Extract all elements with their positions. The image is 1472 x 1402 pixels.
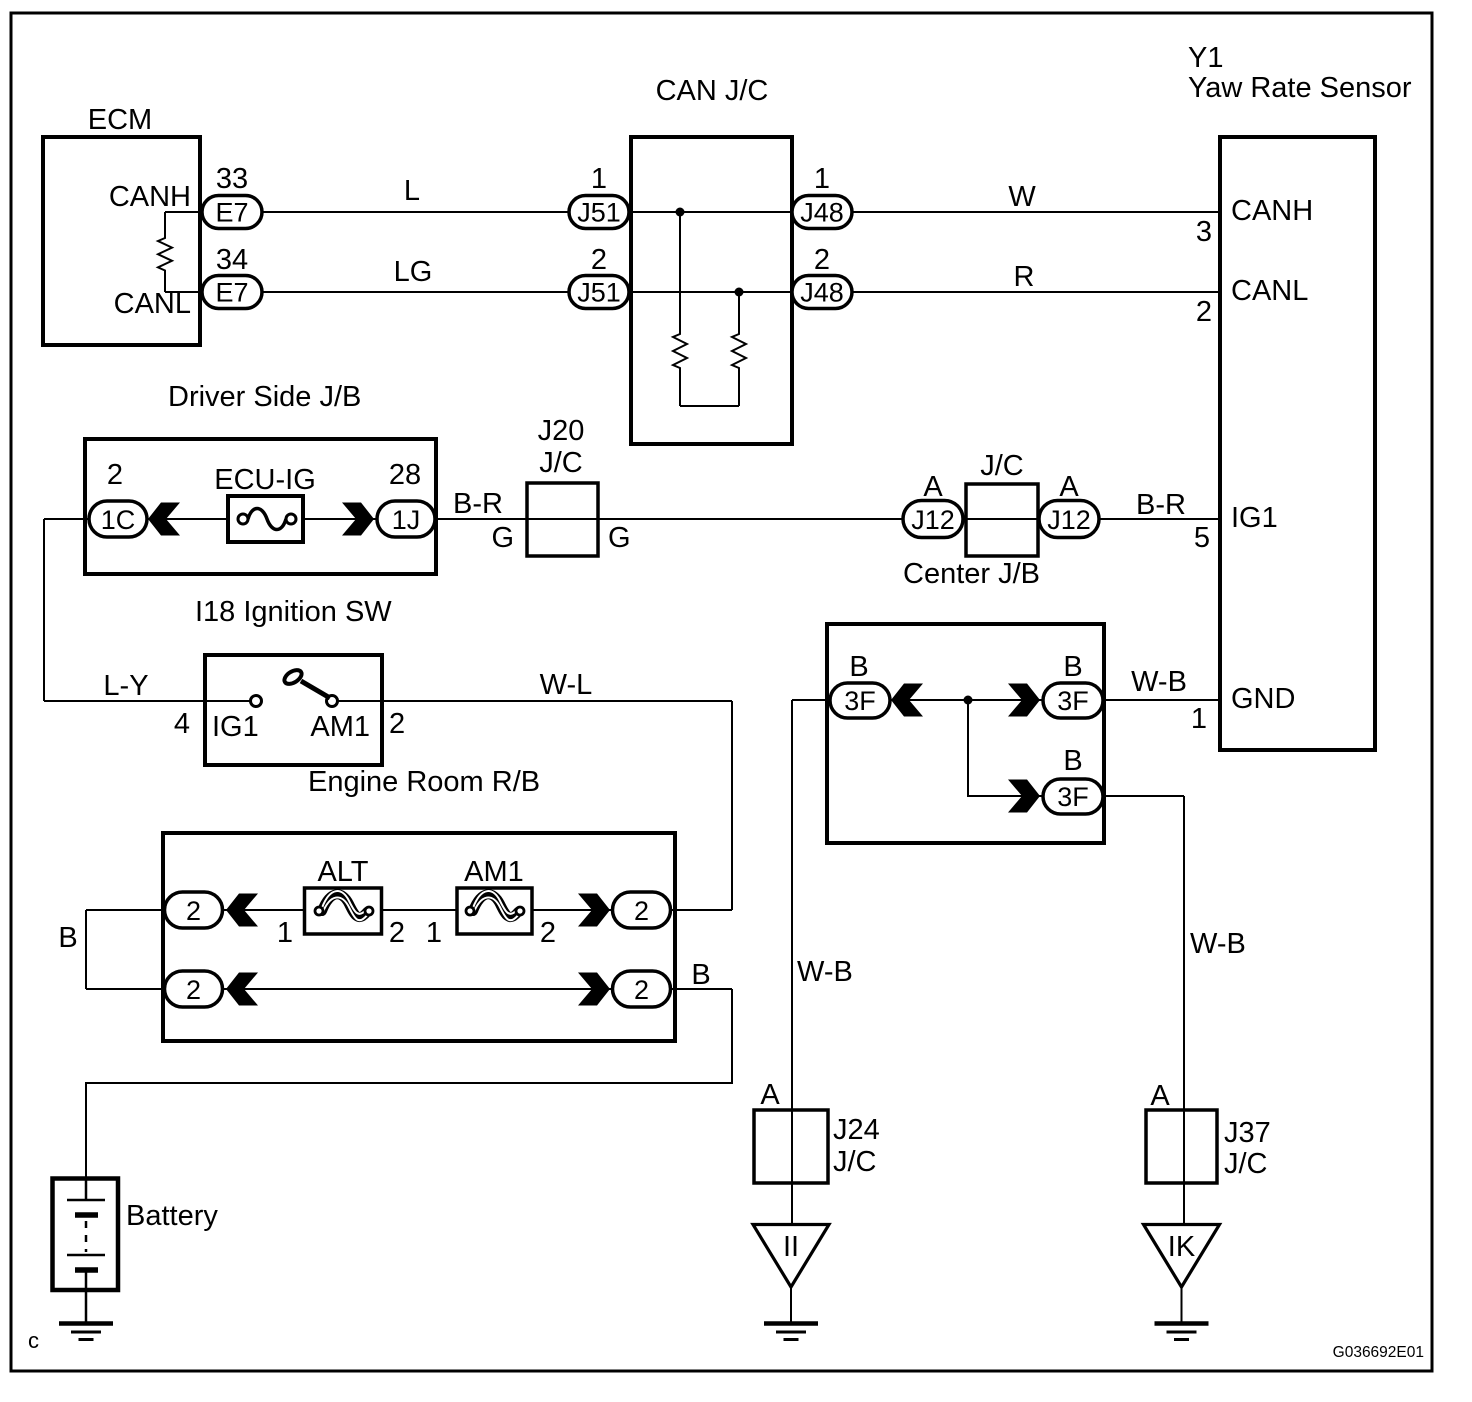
svg-text:R: R [1014, 261, 1035, 293]
svg-text:J/C: J/C [1224, 1148, 1268, 1180]
svg-text:B: B [691, 959, 710, 991]
svg-text:5: 5 [1194, 522, 1210, 554]
svg-text:3: 3 [1196, 216, 1212, 248]
Driver Side J/B box [85, 439, 436, 574]
wire from row2 down to battery feed [86, 989, 732, 1179]
svg-text:AM1: AM1 [464, 856, 524, 888]
svg-text:2: 2 [540, 917, 556, 949]
ECM box [43, 137, 200, 345]
svg-text:I18 Ignition SW: I18 Ignition SW [195, 596, 392, 628]
svg-text:W-B: W-B [797, 956, 853, 988]
ground triangle II [753, 1225, 829, 1288]
fusible link AM1 [457, 888, 532, 934]
svg-text:IG1: IG1 [1231, 502, 1278, 534]
svg-text:1: 1 [426, 917, 442, 949]
svg-text:B: B [58, 922, 77, 954]
connector 3F row2 [1043, 779, 1103, 814]
svg-text:Y1: Y1 [1188, 42, 1223, 74]
wire CANH row ECM to Yaw [165, 211, 1220, 213]
svg-text:W-L: W-L [540, 669, 593, 701]
svg-text:J48: J48 [800, 198, 844, 228]
svg-text:IK: IK [1168, 1231, 1196, 1263]
svg-text:2: 2 [389, 917, 405, 949]
svg-text:Battery: Battery [126, 1200, 218, 1232]
svg-text:33: 33 [216, 163, 248, 195]
arrow left at 1C [148, 503, 180, 536]
node dot (3F box) [964, 696, 973, 705]
switch lever [282, 667, 330, 698]
svg-text:1: 1 [814, 163, 830, 195]
ground (J24) [764, 1324, 818, 1340]
svg-text:2: 2 [634, 896, 649, 926]
svg-text:2: 2 [186, 896, 201, 926]
svg-text:GND: GND [1231, 683, 1295, 715]
svg-text:CANL: CANL [1231, 275, 1308, 307]
connector 2 row2 left [165, 971, 223, 1007]
svg-text:J24: J24 [833, 1114, 880, 1146]
svg-text:J/C: J/C [539, 447, 583, 479]
connector J48 pin 1 [792, 196, 852, 229]
arrow right row2 [578, 973, 610, 1006]
connector J48 pin 2 [792, 276, 852, 309]
svg-text:L: L [404, 175, 420, 207]
ground (battery) [59, 1324, 113, 1340]
svg-text:W-B: W-B [1190, 928, 1246, 960]
connector J51 pin 2 [569, 276, 629, 309]
svg-text:4: 4 [174, 708, 190, 740]
svg-text:J/C: J/C [980, 450, 1024, 482]
connector 3F row1 right [1043, 683, 1103, 718]
switch contact IG1 [251, 696, 262, 707]
svg-text:2: 2 [389, 708, 405, 740]
svg-text:2: 2 [1196, 296, 1212, 328]
svg-text:B: B [849, 651, 868, 683]
CAN J/C box [631, 137, 792, 444]
svg-text:J12: J12 [911, 505, 955, 535]
svg-text:A: A [923, 471, 943, 503]
wire Engine Room row1 [86, 909, 732, 911]
svg-text:IG1: IG1 [212, 711, 259, 743]
wire to second 3F row [968, 700, 1043, 796]
svg-text:E7: E7 [215, 198, 248, 228]
wire triangle to ground (J24) [790, 1287, 792, 1322]
wire L-Y horizontal to ignition switch [44, 700, 205, 702]
connector 2 row1 right [613, 892, 671, 928]
svg-text:G: G [491, 522, 514, 554]
terminating resistor 2 (CAN J/C) [732, 292, 746, 406]
svg-text:c: c [28, 1328, 39, 1353]
svg-text:J48: J48 [800, 278, 844, 308]
Battery [53, 1178, 119, 1290]
svg-text:LG: LG [394, 256, 433, 288]
wire W-B left vertical (3F to J24) [791, 700, 793, 1224]
wire triangle to ground (J37) [1181, 1287, 1183, 1322]
svg-text:B-R: B-R [1136, 489, 1186, 521]
svg-text:J51: J51 [577, 278, 621, 308]
resistor inside ECM between CANH and CANL [158, 212, 172, 292]
svg-text:3F: 3F [1057, 686, 1089, 716]
arrow left row1 [226, 894, 258, 927]
3F junction block box [827, 624, 1104, 843]
svg-text:CANH: CANH [1231, 195, 1313, 227]
svg-text:Driver Side J/B: Driver Side J/B [168, 381, 361, 413]
connector J12 left [903, 501, 963, 538]
connector E7 pin 34 [202, 276, 262, 309]
junction block J37 J/C box [1146, 1110, 1217, 1183]
svg-text:J51: J51 [577, 198, 621, 228]
junction block J24 J/C box [754, 1110, 828, 1183]
ground triangle IK [1144, 1225, 1220, 1288]
svg-text:ALT: ALT [317, 856, 368, 888]
arrow right at 3F row2 [1008, 780, 1040, 813]
svg-text:G036692E01: G036692E01 [1333, 1344, 1424, 1361]
svg-text:28: 28 [389, 459, 421, 491]
connector J51 pin 1 [569, 196, 629, 229]
terminating resistor 1 (CAN J/C) [673, 212, 687, 406]
svg-text:AM1: AM1 [310, 711, 370, 743]
svg-text:Yaw Rate Sensor: Yaw Rate Sensor [1188, 72, 1412, 104]
connector 1J [377, 501, 435, 537]
svg-text:J37: J37 [1224, 1117, 1271, 1149]
svg-text:A: A [1059, 471, 1079, 503]
svg-text:CAN J/C: CAN J/C [656, 75, 769, 107]
svg-text:II: II [783, 1231, 799, 1263]
arrow right at 3F row1 [1008, 684, 1040, 717]
arrow left row2 [226, 973, 258, 1006]
svg-text:ECM: ECM [88, 104, 152, 136]
svg-text:1C: 1C [101, 505, 136, 535]
svg-text:1: 1 [591, 163, 607, 195]
svg-text:2: 2 [814, 244, 830, 276]
wire B-R row (1C to Yaw IG1) [44, 518, 527, 520]
svg-text:J20: J20 [538, 415, 585, 447]
svg-text:B: B [1063, 745, 1082, 777]
svg-text:G: G [608, 522, 631, 554]
Ignition SW box [205, 655, 382, 765]
arrow right row1 [578, 894, 610, 927]
wire W-L to Engine Room R/B [382, 700, 732, 702]
wire joining resistor bottoms [680, 405, 739, 407]
svg-text:1: 1 [1191, 703, 1207, 735]
svg-text:1J: 1J [392, 505, 421, 535]
svg-text:J12: J12 [1047, 505, 1091, 535]
svg-text:2: 2 [186, 975, 201, 1005]
node dot on CANH [676, 208, 685, 217]
svg-text:W: W [1008, 181, 1036, 213]
wire CANL row ECM to Yaw [165, 291, 1220, 293]
svg-text:CANH: CANH [109, 181, 191, 213]
svg-text:A: A [760, 1079, 780, 1111]
svg-text:W-B: W-B [1131, 666, 1187, 698]
Center J/B J/C box [966, 484, 1038, 556]
connector 3F left [830, 683, 890, 718]
connector 2 row2 right [613, 971, 671, 1007]
ground (J37) [1155, 1324, 1209, 1340]
wire from 3F row2 to right vertical [1103, 795, 1184, 797]
wire L-Y vertical from 1C down [43, 519, 45, 701]
wire W-B right vertical (3F to J37) [1183, 796, 1185, 1224]
svg-text:2: 2 [107, 459, 123, 491]
svg-text:ECU-IG: ECU-IG [214, 464, 316, 496]
wire battery to ground [85, 1290, 88, 1322]
connector 2 row1 left [165, 892, 223, 928]
svg-text:Center J/B: Center J/B [903, 558, 1040, 590]
wire vertical down to Engine Room row1 [731, 701, 733, 910]
svg-text:1: 1 [277, 917, 293, 949]
node dot on CANL [735, 288, 744, 297]
fuse ECU-IG box [228, 496, 303, 542]
connector J12 right [1039, 501, 1099, 538]
Engine Room R/B box [163, 833, 675, 1041]
svg-text:2: 2 [591, 244, 607, 276]
svg-text:Engine Room R/B: Engine Room R/B [308, 766, 540, 798]
svg-text:3F: 3F [844, 686, 876, 716]
arrow left at 3F left [891, 684, 923, 717]
switch contact AM1 [327, 696, 338, 707]
svg-text:3F: 3F [1057, 782, 1089, 812]
svg-text:E7: E7 [215, 278, 248, 308]
wire Engine Room row2 [86, 988, 732, 990]
svg-text:A: A [1150, 1080, 1170, 1112]
Yaw Rate Sensor Y1 box [1220, 137, 1375, 750]
svg-text:L-Y: L-Y [103, 670, 148, 702]
svg-text:J/C: J/C [833, 1146, 877, 1178]
connector 1C [89, 501, 147, 537]
svg-text:34: 34 [216, 244, 248, 276]
svg-text:2: 2 [634, 975, 649, 1005]
wire GND row (3F to Yaw GND) [792, 699, 1220, 701]
fusible link ALT [305, 888, 382, 934]
J20 J/C box [527, 483, 598, 556]
svg-text:B-R: B-R [453, 488, 503, 520]
connector E7 pin 33 [202, 196, 262, 229]
arrow right at 1J [342, 503, 374, 536]
wire B left vertical joining rows [85, 910, 87, 989]
svg-text:CANL: CANL [114, 288, 191, 320]
svg-text:B: B [1063, 651, 1082, 683]
